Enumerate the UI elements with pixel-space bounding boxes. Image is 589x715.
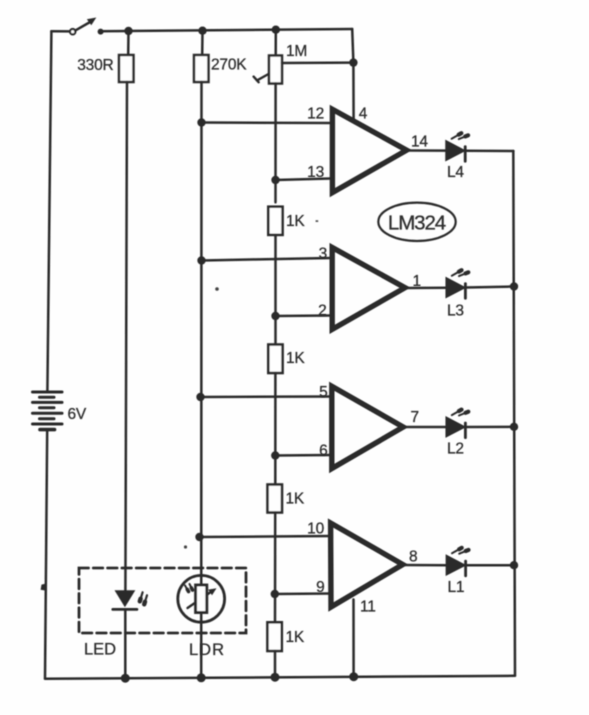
- svg-text:LED: LED: [84, 641, 116, 659]
- junction node pin11 bottom rail: [349, 672, 358, 681]
- LED L4: [447, 133, 469, 161]
- wire output 1: [408, 286, 447, 289]
- wire input pin9: [275, 592, 331, 595]
- svg-text:12: 12: [307, 106, 324, 123]
- wire input pin13: [276, 179, 331, 181]
- speck artifact: [316, 220, 319, 222]
- op-amp U1c: [332, 386, 403, 468]
- resistor 330R: [119, 55, 134, 82]
- wire chain pot to R-chain: [274, 84, 277, 203]
- switch S1: [70, 18, 104, 35]
- junction node pin6 chain: [271, 451, 279, 459]
- wire chain bottom: [274, 651, 277, 677]
- wire input pin6: [275, 454, 330, 457]
- wire pin11 ground: [352, 600, 355, 677]
- svg-text:14: 14: [411, 134, 428, 151]
- junction node LED bottom rail: [121, 674, 130, 683]
- junction node pin12 sense: [197, 118, 205, 126]
- wire 330R column top: [127, 31, 130, 55]
- svg-text:13: 13: [307, 164, 324, 181]
- wire input pin2: [276, 314, 331, 317]
- svg-text:1K: 1K: [286, 350, 305, 367]
- svg-text:4: 4: [359, 106, 368, 123]
- wire input pin10: [200, 536, 331, 537]
- LDR: [178, 575, 225, 622]
- svg-text:6: 6: [319, 443, 327, 460]
- junction node pin10 sense: [195, 533, 203, 541]
- resistor 270K: [194, 55, 209, 82]
- dashed enclosure box: [79, 568, 246, 633]
- wire input pin5: [201, 395, 331, 398]
- junction node pin9 chain: [271, 590, 279, 598]
- wire left vertical lower: [45, 430, 47, 679]
- junction node L2 right rail: [510, 423, 518, 431]
- wire input pin12: [202, 121, 331, 124]
- blemish on left wire: [41, 584, 46, 591]
- resistor 1K c: [268, 485, 283, 513]
- wire bottom rail: [45, 676, 515, 679]
- resistor 1K b: [268, 345, 282, 374]
- wire 270K column (sense line): [200, 82, 203, 678]
- svg-text:1K: 1K: [286, 629, 305, 646]
- svg-text:1M: 1M: [286, 43, 307, 60]
- wire output 8: [403, 564, 447, 567]
- svg-text:1K: 1K: [286, 213, 305, 230]
- wire chain: [274, 373, 277, 484]
- junction node pin3 sense: [197, 256, 205, 264]
- svg-text:L3: L3: [447, 303, 464, 320]
- svg-text:11: 11: [360, 599, 376, 616]
- junction node top rail pot: [272, 26, 280, 34]
- svg-text:L2: L2: [447, 441, 464, 458]
- wire L2 to right rail: [466, 426, 514, 429]
- LED L2: [447, 410, 469, 438]
- LED L1: [447, 548, 469, 576]
- svg-text:2: 2: [318, 303, 326, 320]
- svg-text:7: 7: [411, 409, 419, 426]
- svg-text:5: 5: [319, 384, 327, 401]
- wire input pin3: [202, 258, 331, 261]
- op-amp U1b: [332, 248, 405, 330]
- wire chain column top: [274, 30, 277, 56]
- junction node pin13 chain: [271, 176, 279, 184]
- svg-text:3: 3: [319, 246, 327, 263]
- wire top rail: [100, 29, 352, 31]
- wire left vertical (battery branch): [47, 31, 51, 390]
- op-amp U1d: [331, 523, 403, 607]
- junction node pin5 sense: [196, 393, 204, 401]
- wire L1 to right rail: [466, 564, 514, 567]
- LED (indicator in box): [113, 590, 147, 609]
- wire output 14: [408, 149, 447, 152]
- svg-text:LM324: LM324: [388, 212, 446, 235]
- battery 6V: [33, 392, 63, 430]
- wire right vertical: [513, 151, 515, 676]
- svg-text:9: 9: [316, 579, 324, 596]
- potentiometer 1M: [254, 56, 354, 84]
- speck artifact: [215, 287, 219, 291]
- junction node L1 right rail: [510, 561, 518, 569]
- junction node LDR bottom rail: [197, 673, 206, 682]
- resistor 1K d: [267, 622, 281, 651]
- svg-text:6V: 6V: [68, 406, 87, 423]
- svg-text:LDR: LDR: [189, 641, 225, 659]
- op-amp U1a: [332, 109, 406, 192]
- wire top rail left segment: [51, 30, 72, 33]
- svg-text:8: 8: [409, 549, 417, 566]
- wire L4 to right rail: [466, 150, 514, 153]
- wire chain: [274, 235, 277, 345]
- wire 330R column to LED: [125, 82, 127, 590]
- svg-text:10: 10: [307, 521, 324, 538]
- wire L3 to right rail: [466, 287, 514, 288]
- svg-text:270K: 270K: [211, 57, 247, 74]
- wire 270K column top: [201, 31, 204, 55]
- svg-text:1K: 1K: [286, 491, 305, 508]
- wire pin4 supply: [352, 29, 353, 120]
- junction node L3 right rail: [510, 282, 518, 290]
- svg-text:1: 1: [413, 273, 421, 290]
- junction node chain bottom rail: [271, 673, 280, 682]
- junction node top rail 330R: [124, 27, 132, 35]
- svg-text:L1: L1: [448, 579, 465, 596]
- speck artifact: [184, 545, 187, 548]
- wire LED column bottom: [124, 609, 127, 678]
- LED L3: [447, 270, 469, 298]
- svg-text:330R: 330R: [77, 57, 113, 74]
- junction node wiper pin4: [349, 58, 357, 66]
- wire output 7: [406, 426, 447, 429]
- wire chain: [274, 513, 277, 623]
- LM324 ellipse: [378, 203, 455, 241]
- junction node pin2 chain: [271, 312, 279, 320]
- junction node top rail 270K: [198, 27, 206, 35]
- resistor 1K a: [268, 207, 282, 235]
- svg-text:L4: L4: [447, 164, 464, 181]
